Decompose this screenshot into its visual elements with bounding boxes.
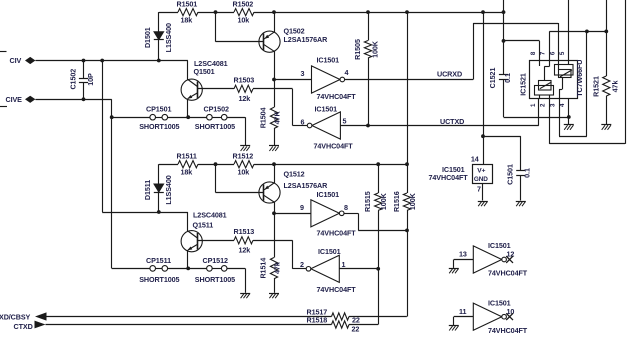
svg-text:R1501: R1501 (177, 0, 198, 9)
wire IC1521 pin5 riser (568, 0, 570, 61)
svg-text:11: 11 (459, 307, 467, 316)
wire CP1501 row (112, 115, 246, 145)
svg-text:9: 9 (300, 203, 304, 212)
wire inverter4 output to R1513 (293, 240, 307, 268)
resistor R1511 (177, 152, 199, 177)
ground inverter5 (449, 269, 459, 274)
svg-text:L1SS400: L1SS400 (164, 23, 173, 52)
wire UCTXD net (340, 98, 538, 126)
svg-text:Q1512: Q1512 (284, 169, 305, 178)
svg-text:IC1501: IC1501 (315, 104, 338, 113)
wire CP1511 row (156, 267, 246, 293)
ic IC1521 TC7W66FU analog switch (519, 51, 585, 107)
svg-text:74VHC04FT: 74VHC04FT (317, 285, 357, 294)
inverter gate IC1501 pins 2-1 (300, 247, 356, 294)
svg-text:100K: 100K (371, 40, 380, 58)
wire CIVE line (35, 99, 111, 101)
resistor R1502 (233, 0, 255, 24)
resistor R1516 (392, 164, 417, 316)
wire Q1502 base (216, 12, 264, 42)
resistor R1517 (307, 308, 408, 325)
svg-text:SHORT1005: SHORT1005 (195, 275, 235, 284)
svg-text:Q1511: Q1511 (193, 221, 214, 230)
svg-text:TC7W66FU: TC7W66FU (575, 60, 584, 97)
wire CIV vertical to lower half (102, 61, 188, 214)
svg-text:D1511: D1511 (143, 180, 152, 200)
svg-text:C1502: C1502 (68, 69, 77, 90)
wire left stub 2 (0, 106, 7, 108)
svg-text:47k: 47k (273, 262, 282, 274)
svg-text:0.1: 0.1 (523, 168, 532, 178)
resistor R1504 (258, 80, 281, 146)
wire inverter2 output to R1503 (293, 89, 308, 126)
wire inverter4 input net (339, 268, 378, 270)
ground R1514 (269, 294, 279, 299)
ground CP1502 (240, 146, 250, 152)
wire CTXD line (46, 324, 332, 326)
svg-text:3: 3 (301, 69, 305, 78)
svg-text:1: 1 (342, 260, 346, 269)
jumper CP1512 (195, 256, 235, 284)
node TXD/CBSY (0, 312, 47, 321)
wire lower rail (159, 162, 409, 166)
wire Q1512 base (216, 164, 264, 192)
svg-text:10k: 10k (238, 15, 250, 24)
resistor R1501 (177, 0, 199, 24)
ground C1501 (516, 202, 526, 207)
svg-text:5: 5 (343, 116, 347, 125)
wire left stub top (0, 51, 7, 53)
svg-text:IC1501: IC1501 (317, 56, 340, 65)
svg-text:74VHC04FT: 74VHC04FT (314, 142, 354, 151)
resistor R1518 (307, 316, 379, 334)
wire TXD/CBSY line (47, 316, 332, 318)
svg-text:Q1501: Q1501 (194, 67, 215, 76)
resistor R1503 (197, 76, 292, 103)
inverter gate IC1501 pins 3-4 (301, 56, 357, 101)
resistor R1505 (353, 12, 380, 127)
svg-text:R1521: R1521 (592, 76, 601, 97)
diode D1501 (143, 12, 173, 60)
inverter gate IC1501 pins 9-8 (300, 190, 356, 237)
svg-text:GND: GND (474, 176, 488, 183)
inverter gate IC1501 pins 5-6 (301, 104, 354, 150)
wire inverter6 input (454, 317, 474, 326)
svg-text:XD/CBSY: XD/CBSY (0, 312, 31, 321)
svg-text:14: 14 (471, 154, 479, 163)
ground R1504 (269, 146, 279, 152)
svg-text:R1504: R1504 (258, 107, 267, 128)
svg-text:7: 7 (477, 184, 481, 193)
svg-text:R1518: R1518 (307, 316, 328, 325)
wire IC1521 pin7 route (549, 30, 608, 61)
transistor Q1502 (259, 12, 328, 79)
ground R1521 (601, 125, 611, 130)
jumper CP1501 (139, 105, 179, 131)
resistor R1515 (363, 164, 388, 324)
svg-text:74VHC04FT: 74VHC04FT (317, 228, 357, 237)
inverter gate IC1501 pins 13-12 (459, 241, 528, 278)
svg-text:22: 22 (352, 316, 360, 325)
svg-text:R1514: R1514 (258, 258, 267, 279)
svg-text:CP1501: CP1501 (146, 105, 171, 114)
svg-text:R1505: R1505 (353, 39, 362, 60)
svg-text:CIVE: CIVE (6, 95, 23, 104)
svg-text:IC1501: IC1501 (318, 247, 341, 256)
svg-text:R1512: R1512 (233, 152, 254, 161)
svg-text:IC1521: IC1521 (519, 73, 528, 96)
svg-text:UCRXD: UCRXD (437, 69, 462, 78)
svg-text:D1501: D1501 (143, 27, 152, 48)
wire CIV line (35, 59, 188, 63)
ground inverter6 (449, 326, 459, 331)
svg-text:47K: 47K (273, 111, 282, 125)
resistor R1514 (258, 213, 281, 292)
transistor Q1511 (181, 211, 227, 269)
svg-text:2: 2 (300, 260, 304, 269)
svg-text:CTXD: CTXD (14, 322, 33, 331)
svg-text:22: 22 (352, 325, 360, 334)
svg-text:12k: 12k (239, 94, 251, 103)
svg-text:CP1502: CP1502 (204, 105, 229, 114)
svg-text:L2SA1576AR: L2SA1576AR (284, 181, 329, 190)
ground CP1512 (240, 294, 250, 299)
svg-text:100K: 100K (379, 192, 388, 210)
svg-text:C1521: C1521 (488, 68, 497, 89)
svg-text:SHORT1005: SHORT1005 (195, 122, 235, 131)
svg-text:SHORT1005: SHORT1005 (139, 275, 179, 284)
resistor R1513 (197, 227, 292, 254)
inverter gate IC1501 pins 11-10 (459, 298, 528, 335)
svg-text:CIV: CIV (10, 56, 22, 65)
wire V+ net vertical (481, 12, 485, 165)
power IC1501 V+/GND block (429, 154, 493, 200)
svg-text:L1SS400: L1SS400 (164, 175, 173, 204)
ground IC1521 pin4 (564, 125, 574, 130)
node CTXD (14, 321, 46, 331)
svg-text:R1502: R1502 (233, 0, 254, 9)
node CIV (10, 56, 36, 65)
wire C1501 branch (483, 136, 521, 170)
wire CIVE vertical to CP rows (110, 99, 150, 268)
svg-text:C1501: C1501 (505, 164, 514, 185)
svg-text:74VHC04FT: 74VHC04FT (429, 173, 469, 182)
svg-text:8: 8 (344, 203, 348, 212)
wire C1521 net (502, 0, 506, 74)
svg-text:R1515: R1515 (363, 191, 372, 212)
svg-text:R1516: R1516 (392, 191, 401, 212)
wire IC1521 pin2 route (549, 0, 625, 144)
wire inverter5 input (454, 260, 474, 268)
wire UCRXD net (345, 23, 559, 80)
wire Q1502 collector node (272, 78, 311, 82)
svg-text:18k: 18k (181, 15, 193, 24)
svg-text:47k: 47k (610, 81, 619, 93)
wire IC1521 pin4 ground (568, 98, 570, 124)
svg-text:74VHC04FT: 74VHC04FT (488, 326, 528, 335)
svg-text:V+: V+ (477, 167, 485, 174)
svg-text:IC1501: IC1501 (317, 190, 340, 199)
wire IC1521 pin8 route (504, 41, 540, 61)
wire IC1521 pin3 route (559, 31, 587, 136)
svg-text:10P: 10P (86, 73, 95, 86)
svg-text:10k: 10k (238, 168, 250, 177)
svg-text:L2SC4081: L2SC4081 (193, 211, 227, 220)
svg-text:74VHC04FT: 74VHC04FT (317, 92, 357, 101)
wire inverter3 output net (344, 213, 409, 232)
svg-text:4: 4 (345, 68, 349, 77)
resistor R1521 (592, 0, 620, 124)
ground IC1501 power (478, 202, 488, 207)
svg-text:R1511: R1511 (177, 152, 197, 161)
node CIVE (6, 95, 36, 104)
jumper CP1511 (139, 256, 179, 284)
svg-text:CP1511: CP1511 (146, 256, 171, 265)
node inverter5 output no-connect (506, 256, 513, 263)
transistor Q1501 (181, 59, 228, 117)
svg-text:L2SA1576AR: L2SA1576AR (284, 35, 329, 44)
svg-text:UCTXD: UCTXD (440, 117, 464, 126)
svg-text:SHORT1005: SHORT1005 (139, 122, 179, 131)
wire rail interconnect vertical (407, 12, 409, 164)
svg-text:12k: 12k (239, 245, 251, 254)
diode D1511 (143, 164, 173, 212)
svg-text:13: 13 (459, 250, 467, 259)
wire top rail (159, 10, 506, 14)
svg-text:R1503: R1503 (234, 76, 255, 85)
svg-text:6: 6 (301, 117, 305, 126)
svg-text:18k: 18k (181, 168, 193, 177)
svg-text:CP1512: CP1512 (203, 256, 228, 265)
svg-text:0.1: 0.1 (503, 73, 512, 83)
capacitor C1501 (505, 164, 531, 200)
svg-text:100K: 100K (408, 192, 417, 210)
capacitor C1521 (488, 68, 571, 119)
transistor Q1512 (259, 164, 328, 213)
jumper CP1502 (195, 105, 235, 131)
wire Q1512 collector node (272, 211, 311, 215)
svg-text:R1513: R1513 (234, 227, 255, 236)
svg-text:74VHC04FT: 74VHC04FT (488, 269, 528, 278)
capacitor C1502 (68, 61, 95, 102)
node inverter6 output no-connect (506, 313, 513, 320)
resistor R1512 (233, 152, 255, 177)
